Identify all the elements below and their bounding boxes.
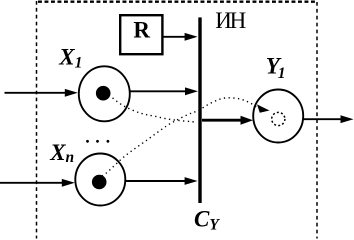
svg-text:ИН: ИН — [215, 8, 245, 33]
svg-text:R: R — [133, 18, 150, 43]
